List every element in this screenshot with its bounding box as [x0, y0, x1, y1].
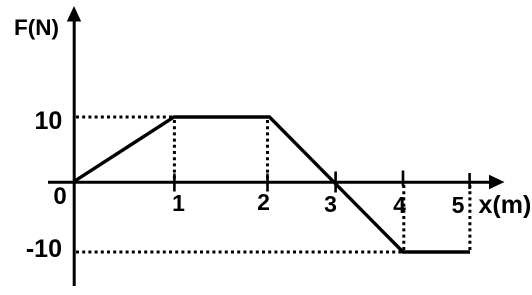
svg-text:x(m): x(m) — [479, 191, 532, 219]
svg-text:0: 0 — [53, 183, 66, 210]
svg-text:10: 10 — [34, 107, 62, 135]
svg-text:4: 4 — [393, 192, 406, 218]
svg-text:3: 3 — [324, 191, 337, 217]
svg-text:F(N): F(N) — [14, 15, 59, 40]
svg-text:1: 1 — [172, 190, 185, 216]
svg-text:5: 5 — [452, 192, 465, 218]
svg-text:2: 2 — [257, 189, 270, 215]
svg-text:-10: -10 — [26, 235, 62, 263]
